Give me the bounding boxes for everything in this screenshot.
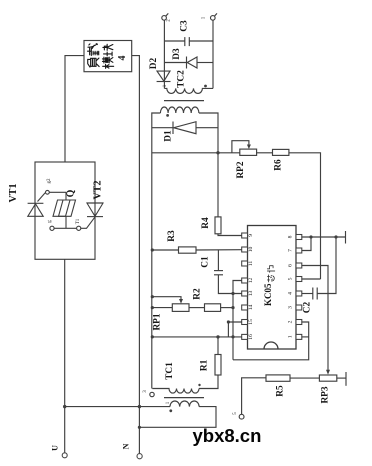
svg-text:T1: T1: [76, 218, 81, 224]
svg-text:U: U: [51, 445, 60, 451]
svg-text:12: 12: [248, 278, 254, 284]
svg-text:9: 9: [248, 234, 254, 237]
svg-text:3: 3: [288, 306, 294, 309]
svg-text:2: 2: [288, 320, 294, 323]
svg-text:R3: R3: [167, 230, 177, 242]
svg-text:g2: g2: [47, 178, 52, 184]
svg-text:R2: R2: [193, 288, 203, 300]
svg-text:4: 4: [288, 292, 294, 295]
svg-text:TC2: TC2: [177, 70, 187, 88]
svg-text:1: 1: [288, 335, 294, 338]
svg-text:10: 10: [248, 247, 254, 253]
svg-text:D2: D2: [149, 57, 159, 69]
svg-text:VT2: VT2: [93, 181, 104, 200]
svg-text:C2: C2: [303, 301, 313, 313]
svg-text:14: 14: [248, 305, 254, 311]
svg-text:11: 11: [248, 261, 254, 267]
svg-text:ybx8.cn: ybx8.cn: [193, 425, 262, 446]
svg-text:RP2: RP2: [236, 161, 246, 178]
svg-text:R1: R1: [200, 359, 210, 371]
svg-text:7: 7: [288, 249, 294, 252]
svg-text:4: 4: [117, 56, 128, 61]
svg-text:5: 5: [288, 277, 294, 280]
svg-text:D1: D1: [164, 130, 174, 142]
svg-text:N: N: [122, 443, 131, 449]
svg-text:KC05: KC05: [263, 283, 273, 306]
svg-text:C3: C3: [180, 20, 190, 32]
svg-text:D3: D3: [172, 48, 182, 60]
svg-text:VT1: VT1: [8, 184, 19, 203]
svg-text:8: 8: [288, 235, 294, 238]
svg-text:RP3: RP3: [321, 386, 331, 403]
svg-text:R6: R6: [274, 159, 284, 171]
svg-text:RP1: RP1: [153, 313, 163, 330]
svg-text:15: 15: [248, 319, 254, 325]
svg-text:16: 16: [248, 334, 254, 340]
svg-text:R5: R5: [276, 385, 286, 397]
svg-text:13: 13: [248, 291, 254, 297]
svg-text:R4: R4: [201, 217, 211, 229]
svg-text:6: 6: [288, 264, 294, 267]
svg-text:TC1: TC1: [165, 362, 175, 380]
svg-text:C1: C1: [201, 256, 211, 268]
svg-text:Q: Q: [66, 189, 77, 197]
